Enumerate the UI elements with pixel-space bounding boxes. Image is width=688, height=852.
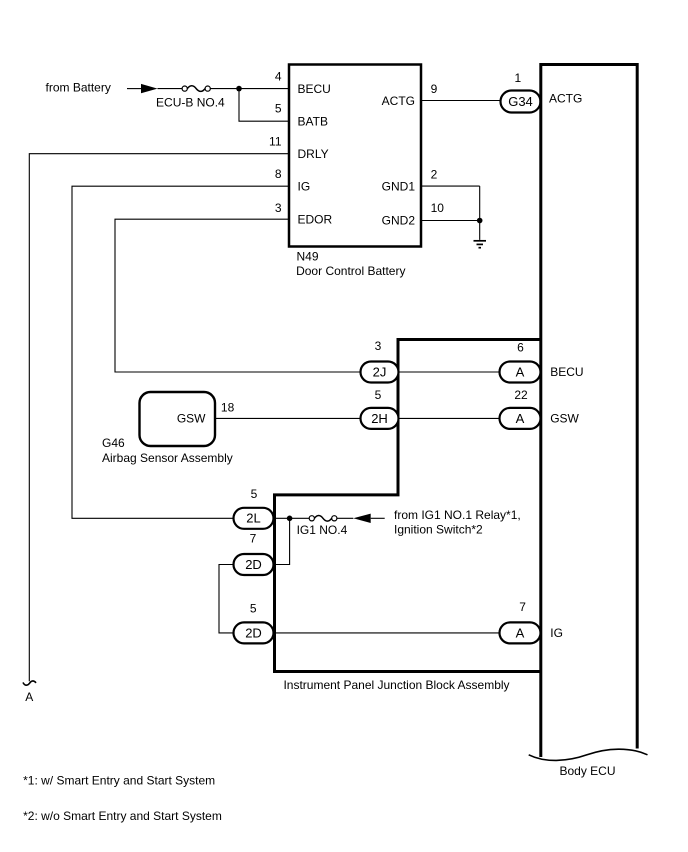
svg-text:Airbag Sensor Assembly: Airbag Sensor Assembly	[102, 451, 233, 465]
wire GSW pin 18 to 2H	[216, 417, 361, 419]
svg-text:ACTG: ACTG	[382, 94, 415, 108]
connector 2J	[361, 362, 399, 383]
junction dot (battery branch)	[236, 86, 242, 92]
svg-text:DRLY: DRLY	[298, 147, 329, 161]
svg-text:GND1: GND1	[382, 179, 416, 193]
connector 2D (lower)	[234, 622, 274, 643]
connector 2D (upper)	[234, 554, 274, 575]
connector A (GSW)	[500, 408, 541, 429]
svg-text:10: 10	[431, 201, 445, 215]
wire GND2 pin 10	[421, 220, 480, 222]
svg-text:1: 1	[514, 71, 521, 85]
svg-text:8: 8	[275, 167, 282, 181]
ECU box Body ECU	[541, 65, 637, 758]
svg-text:ACTG: ACTG	[549, 92, 582, 106]
break symbol A (squiggle)	[23, 681, 36, 685]
svg-text:from Battery: from Battery	[46, 81, 111, 95]
wire 2H to A (GSW)	[398, 417, 500, 419]
svg-text:IG: IG	[298, 179, 311, 193]
svg-text:GSW: GSW	[550, 412, 579, 426]
svg-text:7: 7	[519, 600, 526, 614]
arrow (from IG1 relay, pointing left)	[353, 514, 370, 523]
svg-text:A: A	[25, 690, 33, 704]
svg-text:18: 18	[221, 401, 235, 415]
arrow (from Battery, pointing right)	[141, 84, 158, 93]
svg-text:7: 7	[250, 532, 257, 546]
svg-text:ECU-B NO.4: ECU-B NO.4	[156, 96, 225, 110]
connector 2L	[234, 508, 274, 529]
wire ACTG pin 9 to connector G34	[421, 100, 501, 102]
svg-text:*2: w/o Smart Entry and Start: *2: w/o Smart Entry and Start System	[23, 809, 222, 823]
svg-text:G46: G46	[102, 436, 125, 450]
svg-text:5: 5	[250, 602, 257, 616]
svg-text:from IG1 NO.1 Relay*1,: from IG1 NO.1 Relay*1,	[394, 508, 521, 522]
connector A (BECU)	[500, 362, 541, 383]
fuse ECU-B NO.4	[182, 86, 210, 92]
svg-text:5: 5	[375, 388, 382, 402]
wire DRLY pin 11 to vertical bus A	[29, 154, 289, 682]
svg-text:Instrument Panel Junction Bloc: Instrument Panel Junction Block Assembly	[283, 678, 509, 692]
svg-text:G34: G34	[508, 94, 533, 109]
svg-text:2D: 2D	[245, 625, 262, 640]
svg-text:BECU: BECU	[298, 82, 331, 96]
wire 2L to fuse IG1	[274, 517, 310, 519]
svg-text:2J: 2J	[373, 364, 387, 379]
sensor G46 Airbag Sensor Assembly (GSW box)	[140, 392, 216, 446]
IC N49 Door Control Battery	[289, 65, 421, 247]
wire fuse to N49 BECU pin 4	[210, 88, 289, 90]
svg-text:*1: w/ Smart Entry and Start S: *1: w/ Smart Entry and Start System	[23, 774, 215, 788]
svg-text:Ignition Switch*2: Ignition Switch*2	[394, 523, 483, 537]
wire 2J to A (BECU)	[398, 371, 500, 373]
svg-text:IG1 NO.4: IG1 NO.4	[297, 523, 348, 537]
connector A (IG)	[500, 622, 541, 643]
svg-text:Door Control Battery: Door Control Battery	[296, 264, 405, 278]
wire 2D upper to 2D lower (outside block)	[219, 565, 234, 633]
svg-text:A: A	[516, 364, 525, 379]
svg-text:9: 9	[431, 82, 438, 96]
wire 2D lower to A (IG)	[274, 632, 500, 634]
wire GND1 pin 2	[421, 185, 480, 187]
svg-text:A: A	[516, 411, 525, 426]
wire arrow tail	[371, 517, 385, 519]
junction block outline (Instrument Panel Junction Block Assembly)	[275, 340, 541, 672]
svg-text:2H: 2H	[371, 411, 388, 426]
junction dot (GND)	[477, 218, 483, 224]
wire ground vertical	[479, 186, 481, 240]
svg-text:BATB: BATB	[298, 114, 328, 128]
svg-text:EDOR: EDOR	[298, 212, 333, 226]
Body ECU torn edge (wavy)	[529, 749, 648, 760]
svg-text:3: 3	[375, 339, 382, 353]
svg-text:11: 11	[269, 134, 282, 148]
svg-text:BECU: BECU	[550, 365, 583, 379]
wire IG pin 8 to 2L	[72, 186, 289, 518]
svg-text:GND2: GND2	[382, 214, 416, 228]
wire arrow to fuse	[158, 88, 183, 90]
junction dot (2L / 2D branch)	[287, 516, 293, 522]
svg-text:Body ECU: Body ECU	[559, 764, 615, 778]
wire 2L branch down to 2D	[274, 518, 290, 564]
svg-text:3: 3	[275, 201, 282, 215]
wire branch to BATB pin 5	[239, 89, 289, 122]
svg-text:IG: IG	[550, 626, 563, 640]
svg-text:5: 5	[275, 102, 282, 116]
wire from Battery to arrow	[127, 88, 142, 90]
wire fuse to arrow	[337, 517, 353, 519]
svg-text:6: 6	[517, 340, 524, 354]
svg-text:2: 2	[431, 167, 438, 181]
svg-text:5: 5	[251, 487, 258, 501]
svg-text:A: A	[516, 625, 525, 640]
svg-text:22: 22	[514, 388, 528, 402]
wire EDOR pin 3 to 2J	[115, 219, 361, 372]
svg-text:N49: N49	[297, 250, 319, 264]
connector G34	[501, 91, 541, 113]
svg-text:2L: 2L	[246, 511, 260, 526]
svg-text:GSW: GSW	[177, 412, 206, 426]
svg-text:2D: 2D	[245, 557, 262, 572]
svg-text:4: 4	[275, 69, 282, 83]
connector 2H	[361, 408, 399, 429]
fuse IG1 NO.4	[309, 516, 337, 522]
ground symbol	[474, 241, 487, 248]
